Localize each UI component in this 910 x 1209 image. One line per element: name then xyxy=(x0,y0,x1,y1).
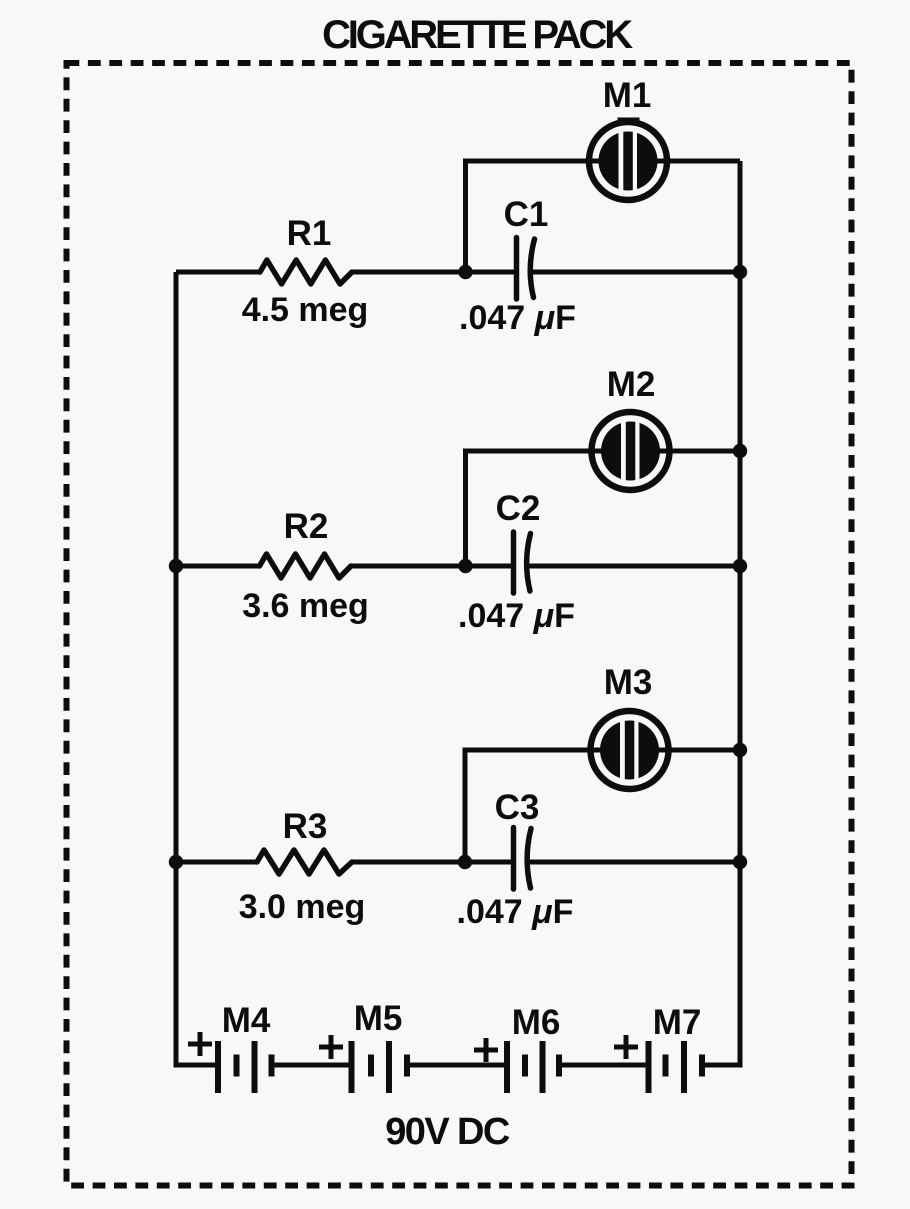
svg-text:M3: M3 xyxy=(604,663,653,702)
resistor R1 xyxy=(260,260,352,284)
svg-text:R3: R3 xyxy=(283,807,328,846)
svg-text:C2: C2 xyxy=(496,489,541,528)
wire: row 3 left segment xyxy=(176,860,258,865)
resistor R2 xyxy=(260,554,352,578)
junction node: left rail row 2 xyxy=(169,559,183,573)
svg-text:M4: M4 xyxy=(222,1001,271,1040)
wire: M1 branch vertical xyxy=(463,161,468,272)
resistor R3 xyxy=(257,850,352,874)
wire: battery link M5-M6 xyxy=(407,1063,507,1068)
wire: row 1 middle segment xyxy=(352,270,517,275)
svg-text:4.5 meg: 4.5 meg xyxy=(242,291,369,329)
wire: M2 branch horizontal xyxy=(463,449,740,454)
capacitor C2 xyxy=(514,532,531,593)
wire: row 1 right segment xyxy=(531,270,740,275)
battery M4 xyxy=(218,1041,272,1093)
capacitor C3 xyxy=(514,828,532,890)
svg-text:C3: C3 xyxy=(495,788,540,827)
wire: left rail (from R1 row down to battery M4) xyxy=(176,272,218,1065)
svg-text:.047 μF: .047 μF xyxy=(459,299,576,337)
svg-text:M5: M5 xyxy=(354,999,403,1038)
svg-text:CIGARETTE PACK: CIGARETTE PACK xyxy=(322,13,633,57)
wire: row 2 middle segment xyxy=(351,564,514,569)
junction node: right rail M2 branch xyxy=(733,444,747,458)
polarity + of M5 xyxy=(319,1035,343,1059)
polarity + of M6 xyxy=(474,1038,498,1062)
svg-text:90V DC: 90V DC xyxy=(385,1111,510,1153)
battery M6 xyxy=(507,1041,559,1093)
wire: row 3 middle segment xyxy=(352,860,514,865)
wire: M1 branch horizontal xyxy=(463,159,740,164)
svg-text:R2: R2 xyxy=(284,507,329,546)
wire: M2 branch vertical xyxy=(463,451,468,566)
wire: right rail (from M1 branch down to battery M7) xyxy=(702,161,740,1065)
polarity + of M4 xyxy=(188,1032,212,1056)
polarity + of M7 xyxy=(614,1035,638,1059)
svg-text:M6: M6 xyxy=(512,1003,561,1042)
svg-text:3.6 meg: 3.6 meg xyxy=(242,587,369,625)
wire: row 3 right segment xyxy=(528,860,740,865)
wire: battery link M4-M5 xyxy=(272,1063,352,1068)
battery M7 xyxy=(649,1041,703,1093)
junction node: right rail row 1 xyxy=(733,265,747,279)
junction node: right rail M3 branch xyxy=(733,743,747,757)
junction node: branch/row 3 xyxy=(458,855,472,869)
wire: battery link M6-M7 xyxy=(559,1063,649,1068)
wire: row 2 right segment xyxy=(528,564,740,569)
junction node: left rail row 3 xyxy=(169,855,183,869)
junction node: right rail row 3 xyxy=(733,855,747,869)
svg-text:.047 μF: .047 μF xyxy=(458,597,575,635)
svg-text:M2: M2 xyxy=(607,365,656,404)
battery M5 xyxy=(352,1041,408,1093)
svg-text:.047 μF: .047 μF xyxy=(457,893,574,931)
junction node: right rail row 2 xyxy=(733,559,747,573)
svg-text:R1: R1 xyxy=(287,214,332,253)
svg-text:M1: M1 xyxy=(603,76,652,115)
neon lamp M3 xyxy=(591,711,669,789)
wire: M3 branch horizontal xyxy=(463,748,741,753)
wire: row 2 left segment xyxy=(176,564,260,569)
svg-text:M7: M7 xyxy=(653,1003,702,1042)
neon lamp M1 xyxy=(589,120,667,201)
wire: M3 branch vertical xyxy=(463,750,468,862)
junction node: branch/row 1 xyxy=(458,265,472,279)
svg-text:C1: C1 xyxy=(504,195,549,234)
svg-text:3.0 meg: 3.0 meg xyxy=(239,888,366,926)
junction node: branch/row 2 xyxy=(458,559,472,573)
wire: row 1 left segment xyxy=(176,270,261,275)
neon lamp M2 xyxy=(592,412,670,490)
capacitor C1 xyxy=(517,238,535,300)
